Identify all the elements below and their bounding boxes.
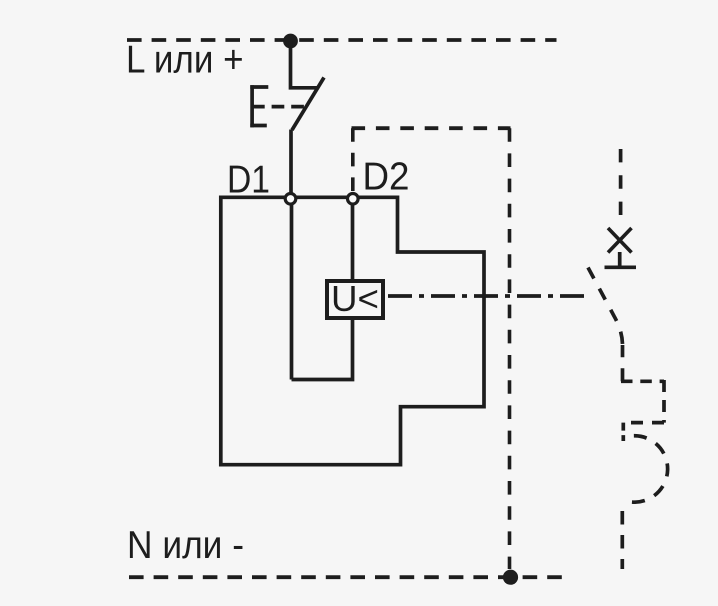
breaker pole wire bottom (dashed) xyxy=(620,511,624,569)
wire from L junction to switch xyxy=(291,41,318,88)
breaker mechanism cam (dashed arc) xyxy=(624,436,668,502)
MCB housing top edge (dashed) xyxy=(352,126,511,130)
wire from D2 junction to coil U< xyxy=(351,199,355,281)
supply line L (dashed) xyxy=(127,38,557,42)
terminal D1 junction circle xyxy=(285,194,296,205)
neutral line N (dashed) xyxy=(129,575,566,579)
MCB housing right edge (dashed) xyxy=(508,128,512,569)
svg-text:D1: D1 xyxy=(227,159,270,202)
svg-text:L или +: L или + xyxy=(126,39,244,82)
release module outline (solid stepped box) xyxy=(221,197,484,464)
wire from coil U< bottom joining D1 wire xyxy=(292,318,353,380)
wire from D1 junction down xyxy=(290,199,294,380)
svg-text:N или -: N или - xyxy=(127,524,244,567)
switch S1 blade xyxy=(292,78,324,131)
svg-text:U<: U< xyxy=(331,278,379,319)
breaker moving blade (dashed) xyxy=(588,268,623,346)
terminal D2 junction circle xyxy=(348,194,359,205)
breaker pole wire top (dashed) xyxy=(619,149,623,224)
breaker mechanism latch outline (dashed) xyxy=(621,345,664,441)
breaker contact cross X xyxy=(608,228,632,253)
manual actuator E xyxy=(250,85,268,127)
undervoltage coil U< box xyxy=(327,281,383,318)
breaker fixed contact stub and bar xyxy=(605,252,637,267)
mechanical linkage from U< to breaker (dash-dot) xyxy=(388,294,590,298)
svg-text:D2: D2 xyxy=(363,156,410,199)
MCB housing left edge (dashed) xyxy=(351,128,355,192)
junction on L line xyxy=(283,34,298,49)
junction on N line xyxy=(503,570,518,585)
actuator mechanical link (dashed) xyxy=(252,105,304,109)
wire from switch blade to terminal D1 xyxy=(289,130,293,194)
